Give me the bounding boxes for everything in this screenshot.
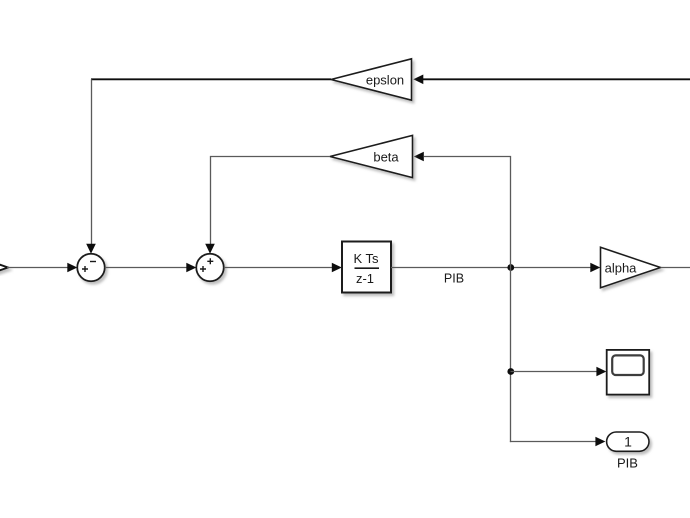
wire S1 to S2 bbox=[105, 267, 188, 269]
svg-text:beta: beta bbox=[373, 149, 399, 164]
gain epslon bbox=[331, 59, 412, 100]
svg-text:K Ts: K Ts bbox=[353, 251, 379, 266]
sum junction S2 bbox=[196, 254, 224, 282]
sign + (S2 west input) bbox=[200, 266, 206, 272]
wire: cropped gain to sum S1 bbox=[7, 267, 69, 269]
arrowhead into beta bbox=[414, 152, 424, 162]
svg-text:PIB: PIB bbox=[617, 455, 638, 470]
sign - (S1 north input) bbox=[90, 261, 96, 263]
fraction bar bbox=[355, 267, 380, 269]
arrowhead into S2 north bbox=[205, 244, 215, 254]
wire epslon input from right edge bbox=[423, 78, 690, 80]
arrowhead into outport bbox=[595, 437, 605, 447]
scope screen bbox=[612, 355, 644, 375]
sign + (S1 west input) bbox=[82, 266, 88, 272]
wire S2 to integrator bbox=[224, 267, 333, 269]
wire node PIB down (to scope branch and outport) bbox=[510, 268, 512, 443]
outport 1 (PIB) bbox=[607, 432, 649, 451]
sign + (S2 north input) bbox=[207, 258, 213, 264]
discrete-time integrator block K Ts/(z-1) bbox=[342, 242, 391, 293]
wire branch to scope bbox=[511, 371, 598, 373]
svg-text:1: 1 bbox=[624, 434, 632, 450]
junction dot (node PIB) bbox=[507, 264, 514, 271]
arrowhead into S2 west bbox=[186, 263, 196, 273]
wire to outport PIB bbox=[510, 441, 597, 443]
arrowhead into alpha bbox=[590, 263, 600, 273]
gain beta bbox=[330, 135, 413, 177]
junction dot (scope branch) bbox=[507, 368, 514, 375]
svg-text:alpha: alpha bbox=[605, 260, 638, 275]
wire node PIB up and left to beta bbox=[424, 157, 511, 268]
arrowhead into S1 west bbox=[67, 263, 77, 273]
svg-text:epslon: epslon bbox=[366, 72, 404, 87]
arrowhead into epslon bbox=[413, 75, 423, 85]
wire: vertical drop to S1 bbox=[91, 79, 93, 245]
wire epslon output feedback (left then down to S1) bbox=[91, 78, 331, 80]
svg-text:z-1: z-1 bbox=[356, 271, 374, 286]
arrowhead into integrator bbox=[332, 263, 342, 273]
wire integrator to alpha (through node) bbox=[391, 267, 592, 269]
scope block bbox=[607, 350, 650, 395]
gain (cropped at left edge) bbox=[0, 263, 8, 271]
svg-text:PIB: PIB bbox=[444, 271, 464, 285]
sum junction S1 bbox=[77, 254, 105, 282]
arrowhead into scope bbox=[596, 367, 606, 377]
wire beta output feedback (left then down to S2) bbox=[211, 157, 331, 246]
arrowhead into S1 north bbox=[86, 244, 96, 254]
gain alpha bbox=[601, 247, 661, 287]
wire alpha to right edge bbox=[661, 267, 690, 269]
